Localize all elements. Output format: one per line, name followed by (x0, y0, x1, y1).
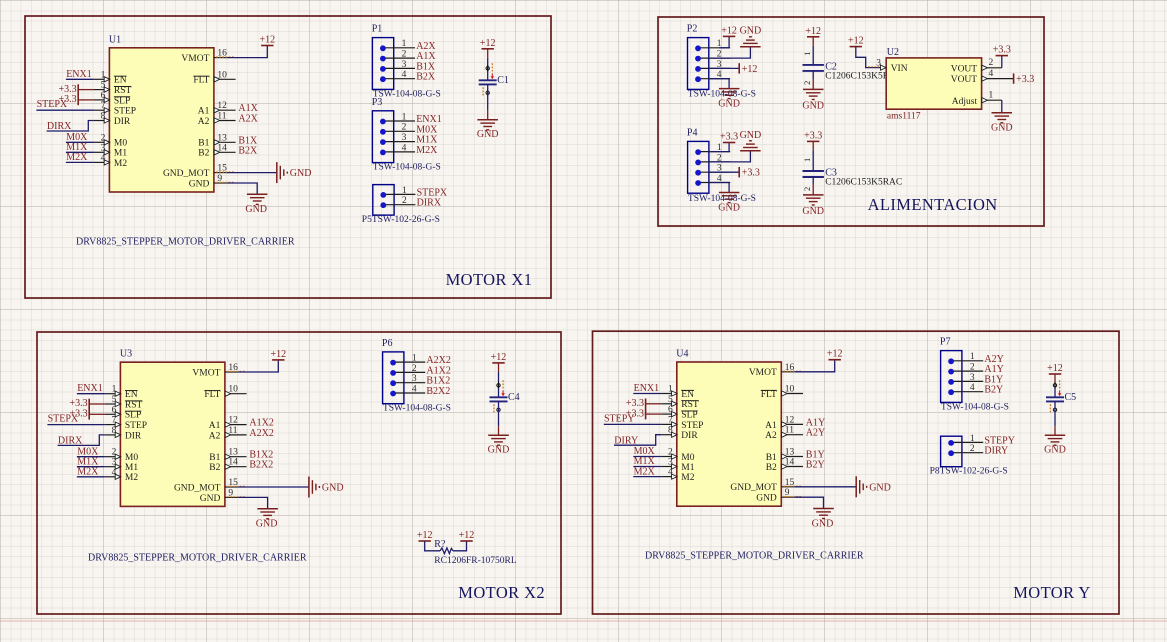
svg-text:2: 2 (402, 123, 407, 133)
svg-text:GND: GND (488, 444, 510, 455)
svg-text:TSW-104-08-G-S: TSW-104-08-G-S (383, 404, 451, 414)
net label M1X (416, 135, 438, 146)
pin 2 of P6 (390, 364, 425, 376)
value TSW-104-08-G-S of P4 (688, 194, 756, 204)
designator P1 (372, 24, 383, 35)
svg-text:STEPY: STEPY (604, 413, 635, 424)
wire +3.3 to C3 (812, 141, 814, 171)
svg-text:DRV8825_STEPPER_MOTOR_DRIVER_C: DRV8825_STEPPER_MOTOR_DRIVER_CARRIER (645, 551, 864, 562)
IC U2 ams1117 body (886, 58, 981, 109)
net label M0X (77, 446, 105, 457)
svg-text:R?: R? (434, 539, 446, 550)
ground GND_MOT port (277, 162, 312, 183)
svg-text:SLP: SLP (125, 411, 141, 421)
ground under pin 9 (256, 509, 278, 530)
svg-text:ENX1: ENX1 (66, 69, 92, 80)
value DRV8825_STEPPER_MOTOR_DRIVER_CARRIER of U1 (76, 237, 295, 248)
ground under pin 9 (245, 194, 267, 215)
svg-text:ENX1: ENX1 (77, 383, 103, 394)
pin 1 Adjust of U2 (952, 91, 1002, 107)
svg-text:M0: M0 (681, 453, 694, 463)
svg-text:11: 11 (228, 426, 237, 436)
svg-text:MOTOR Y: MOTOR Y (1013, 583, 1091, 602)
pin 8 DIR of U4 (661, 426, 698, 441)
designator C4 (508, 392, 520, 403)
designator U3 (120, 349, 132, 360)
svg-text:VIN: VIN (891, 64, 908, 74)
pin 3 VIN of U2 (868, 58, 908, 74)
connector P5 body (373, 185, 394, 216)
svg-text:GND: GND (740, 130, 762, 141)
svg-text:+12: +12 (459, 530, 475, 541)
connector P1 body (372, 38, 393, 90)
svg-text:TSW-104-08-G-S: TSW-104-08-G-S (941, 402, 1009, 412)
svg-text:3: 3 (112, 458, 117, 468)
net label A2Y (984, 354, 1003, 365)
pin 4 M2 of U4 (661, 468, 694, 483)
svg-text:1: 1 (970, 434, 975, 444)
svg-text:+12: +12 (721, 25, 737, 36)
power +12 at U2 VIN (848, 36, 864, 47)
wire +12 to C5 (1054, 374, 1056, 397)
svg-text:+12: +12 (827, 349, 843, 360)
pin 2 of P4 (695, 153, 730, 165)
net label M2X (77, 467, 105, 478)
wire +12 to C4 (498, 363, 500, 397)
svg-text:P1: P1 (372, 24, 383, 35)
svg-text:5: 5 (668, 395, 673, 405)
svg-text:GND: GND (802, 206, 824, 217)
pin 6 SLP of U3 (105, 405, 141, 420)
ground below C2 (802, 89, 824, 111)
svg-text:3: 3 (668, 458, 673, 468)
svg-text:3: 3 (402, 60, 407, 70)
ground below C4 (488, 435, 510, 455)
svg-text:U4: U4 (676, 349, 688, 360)
pin 4 of P4 (695, 174, 730, 186)
pin 16 VMOT of U1 (181, 49, 233, 64)
designator U1 (109, 34, 121, 45)
pin 9 GND of U1 (189, 174, 234, 189)
power +3.3 at U2.2 (993, 45, 1011, 56)
pin 8 DIR of U1 (94, 112, 131, 127)
net label A1X (416, 51, 436, 62)
ground (inverted) at P2.2 (740, 26, 762, 47)
pin 3 of P7 (948, 373, 983, 385)
svg-text:B2X: B2X (416, 72, 436, 83)
svg-text:+12: +12 (848, 36, 864, 47)
wire VMOT to +12 (227, 46, 267, 58)
title MOTOR X1 (446, 270, 533, 289)
net label DIRY (614, 435, 661, 447)
svg-text:GND: GND (802, 101, 824, 112)
svg-text:2: 2 (101, 133, 106, 143)
wire P4 pin4 to GND (709, 183, 729, 193)
svg-text:+12: +12 (742, 64, 758, 75)
svg-text:3: 3 (412, 374, 417, 384)
pin 5 RST of U4 (661, 395, 699, 410)
svg-text:B2: B2 (209, 463, 220, 473)
svg-text:P5TSW-102-26-G-S: P5TSW-102-26-G-S (362, 215, 440, 225)
net label B2X (416, 72, 436, 83)
pin 7 STEP of U3 (105, 416, 147, 431)
svg-text:MOTOR X2: MOTOR X2 (458, 583, 545, 602)
svg-text:A2: A2 (765, 431, 777, 441)
svg-text:DIR: DIR (125, 431, 142, 441)
net label DIRX (417, 198, 442, 209)
svg-text:4: 4 (402, 143, 407, 153)
pin 12 A1 of U3 (209, 416, 247, 431)
svg-text:8: 8 (112, 426, 117, 436)
value TSW-104-08-G-S of P6 (383, 404, 451, 414)
pin 2 of P5 (380, 196, 415, 208)
svg-text:GND: GND (189, 179, 210, 189)
power +12 at VMOT (270, 349, 286, 360)
svg-text:GND: GND (869, 482, 891, 493)
svg-text:DIRX: DIRX (47, 121, 72, 132)
svg-text:STEP: STEP (125, 421, 147, 431)
svg-text:+3.3: +3.3 (720, 132, 738, 143)
net label A1Y (806, 417, 825, 428)
svg-text:SLP: SLP (681, 411, 697, 421)
svg-text:4: 4 (402, 70, 407, 80)
svg-text:GND: GND (991, 123, 1013, 134)
pin 2 VOUT of U2 (951, 58, 1002, 74)
svg-text:C1206C153K5RAC: C1206C153K5RAC (825, 178, 902, 188)
net label M2X (66, 152, 94, 163)
wire GND pin 9 (227, 183, 257, 194)
pin 1 EN of U3 (105, 385, 138, 400)
designator P6 (382, 338, 393, 349)
svg-text:B2X: B2X (238, 145, 258, 156)
svg-text:12: 12 (228, 416, 238, 426)
wire +12 to R? (425, 541, 440, 551)
ground under pin 9 (812, 509, 834, 530)
svg-text:7: 7 (668, 415, 673, 425)
pin 3 of P1 (380, 60, 415, 72)
svg-text:C4: C4 (508, 392, 520, 403)
net label B2Y (806, 460, 825, 471)
net label B1X2 (426, 376, 450, 387)
svg-text:RC1206FR-10750RL: RC1206FR-10750RL (434, 556, 517, 566)
svg-text:MOTOR X1: MOTOR X1 (446, 270, 533, 289)
svg-text:M1: M1 (681, 463, 694, 473)
pin 2 mark of C4 (494, 404, 500, 413)
wire +12 to C2 (812, 37, 814, 65)
pin 4 VOUT of U2 (951, 69, 1014, 85)
title MOTOR X2 (458, 583, 545, 602)
net label B1X (238, 135, 258, 146)
pin 1 of P4 (695, 143, 730, 155)
svg-text:B1: B1 (209, 453, 220, 463)
ground at P2.4 (718, 89, 740, 110)
svg-text:B2Y: B2Y (806, 460, 825, 471)
net label ENX1 (66, 69, 94, 80)
designator P4 (687, 127, 698, 138)
net label STEPX (417, 187, 448, 198)
pin 1 of P6 (390, 354, 425, 366)
pin 2 of P1 (380, 50, 415, 62)
svg-text:DIRY: DIRY (614, 435, 638, 446)
svg-text:VOUT: VOUT (951, 64, 978, 74)
power +3.3 at U2.4 (1014, 73, 1035, 85)
pin 4 of P2 (695, 70, 730, 82)
svg-text:6: 6 (112, 405, 117, 415)
net label DIRX (47, 121, 94, 133)
power +3.3 above C3 (804, 130, 822, 141)
power +3.3 at P4.3 (739, 167, 760, 179)
svg-text:+12: +12 (1047, 363, 1063, 374)
pin 1 of P2 (695, 39, 730, 51)
pin 1 EN of U1 (94, 70, 127, 85)
capacitor C2 plates (803, 65, 824, 71)
pin 3 of P4 (695, 164, 730, 176)
svg-text:14: 14 (785, 458, 795, 468)
svg-text:1: 1 (668, 385, 673, 395)
svg-text:RST: RST (681, 400, 699, 410)
value TSW-104-08-G-S of P1 (373, 89, 441, 99)
svg-text:P2: P2 (687, 24, 698, 35)
pin 1 of C2 (802, 52, 812, 56)
svg-text:4: 4 (112, 468, 117, 478)
svg-text:1: 1 (101, 70, 106, 80)
designator C5 (1065, 392, 1077, 403)
svg-text:14: 14 (228, 458, 238, 468)
net label B2X (238, 145, 258, 156)
pin 13 B1 of U4 (766, 448, 803, 463)
svg-text:B1: B1 (198, 139, 209, 149)
wire C1 to ground (487, 84, 489, 119)
connector P7 body (941, 351, 962, 403)
svg-text:EN: EN (114, 76, 127, 86)
pin 2 mark of C5 (1050, 404, 1056, 413)
resistor R? (434, 539, 453, 554)
pin 3 M1 of U3 (105, 458, 138, 473)
pin 10 FLT of U1 (193, 70, 235, 85)
pin 2 M0 of U3 (105, 448, 138, 463)
svg-text:4: 4 (668, 468, 673, 478)
svg-text:VMOT: VMOT (749, 368, 777, 378)
wire GND_MOT (227, 172, 277, 174)
pin 1 mark of C5 (1053, 380, 1061, 396)
pin 3 M1 of U1 (94, 143, 127, 158)
pin 12 A1 of U4 (765, 415, 803, 430)
pin 1 of P7 (948, 352, 983, 364)
svg-text:B2: B2 (766, 463, 777, 473)
pin 14 B2 of U4 (766, 458, 803, 473)
power +12 above C5 (1047, 363, 1063, 374)
pin 12 A1 of U1 (198, 101, 236, 116)
svg-text:+3.3: +3.3 (804, 130, 822, 141)
value DRV8825_STEPPER_MOTOR_DRIVER_CARRIER of U3 (88, 553, 307, 564)
svg-text:1: 1 (989, 91, 994, 101)
svg-text:GND: GND (245, 204, 267, 215)
pin 3 M1 of U4 (661, 458, 694, 473)
wire +12 to VIN (856, 47, 886, 68)
pin 2 of P2 (695, 50, 730, 62)
svg-text:GND: GND (290, 168, 312, 179)
ground GND_MOT port (309, 477, 344, 498)
wire P4 pin3 to +3.3 bar (709, 171, 739, 173)
svg-text:4: 4 (970, 383, 975, 393)
title ALIMENTACION (868, 195, 998, 214)
svg-text:2: 2 (402, 196, 407, 206)
pin 4 of P7 (948, 383, 983, 395)
svg-text:EN: EN (125, 390, 138, 400)
svg-text:M1: M1 (114, 149, 127, 159)
pin 6 SLP of U1 (94, 91, 130, 106)
pin 13 B1 of U1 (198, 133, 235, 148)
power +3.3 bar at RST/SLP (69, 398, 104, 419)
svg-text:1: 1 (402, 186, 407, 196)
svg-text:RST: RST (114, 86, 132, 96)
svg-text:13: 13 (228, 448, 238, 458)
designator C1 (497, 75, 509, 86)
svg-text:A1: A1 (209, 421, 221, 431)
net label ENX1 (77, 383, 105, 394)
svg-text:GND: GND (812, 518, 834, 529)
svg-text:P7: P7 (940, 337, 951, 348)
svg-text:GND: GND (477, 129, 499, 140)
svg-text:+3.3: +3.3 (742, 168, 760, 179)
wire VOUT2 to +3.3 (1001, 56, 1003, 68)
svg-text:C5: C5 (1065, 392, 1077, 403)
svg-text:STEP: STEP (114, 107, 136, 117)
wire Adjust to GND (1001, 100, 1003, 113)
designator+value P8TSW-102-26-G-S (930, 467, 1008, 477)
svg-text:12: 12 (217, 101, 227, 111)
net label B1Y (984, 374, 1003, 385)
net label ENX1 (633, 383, 661, 394)
value TSW-104-08-G-S of P3 (373, 163, 441, 173)
sheet region MOTOR X1 border (25, 16, 551, 298)
svg-text:7: 7 (101, 101, 106, 111)
svg-text:Adjust: Adjust (952, 97, 978, 107)
svg-text:U3: U3 (120, 349, 132, 360)
net label A2X (416, 41, 436, 52)
wire P2 pin3 to +12 bar (709, 67, 739, 69)
pin 3 of P6 (390, 374, 425, 386)
svg-text:GND_MOT: GND_MOT (163, 169, 210, 179)
wire GND_MOT (794, 486, 856, 488)
svg-text:DIRY: DIRY (984, 446, 1008, 457)
net label A2X2 (249, 428, 273, 439)
pin 15 GND_MOT of U1 (163, 164, 234, 179)
svg-text:GND: GND (718, 203, 740, 214)
pin 11 A2 of U3 (209, 426, 247, 441)
svg-text:DIR: DIR (114, 117, 131, 127)
svg-text:TSW-104-08-G-S: TSW-104-08-G-S (373, 89, 441, 99)
ground at P4.4 (718, 193, 740, 214)
pin 4 of P1 (380, 70, 415, 82)
wire C5 to ground (1054, 401, 1056, 435)
net label DIRX (58, 435, 105, 447)
svg-text:11: 11 (785, 426, 794, 436)
pin 1 of P3 (380, 112, 415, 124)
svg-text:7: 7 (112, 416, 117, 426)
svg-text:GND_MOT: GND_MOT (174, 483, 221, 493)
svg-text:1: 1 (402, 39, 407, 49)
svg-text:DIR: DIR (681, 431, 698, 441)
power +12 left of R? (417, 530, 433, 541)
net label M0X (633, 446, 661, 457)
svg-text:GND_MOT: GND_MOT (730, 483, 777, 493)
pin 7 STEP of U1 (94, 101, 136, 116)
svg-text:6: 6 (668, 405, 673, 415)
svg-text:1: 1 (802, 158, 812, 162)
designator U2 (887, 47, 899, 58)
svg-text:4: 4 (989, 69, 994, 79)
svg-text:4: 4 (412, 384, 417, 394)
wire GND_MOT (238, 486, 309, 488)
sheet region MOTOR Y border (593, 331, 1120, 614)
svg-text:GND: GND (322, 483, 344, 494)
designator P2 (687, 24, 698, 35)
wire +12 to C1 (487, 49, 489, 81)
pin 6 SLP of U4 (661, 405, 697, 420)
pin 1 of P8 (948, 434, 983, 446)
net label A1Y (984, 364, 1003, 375)
net label M0X (66, 132, 94, 143)
pin 1 mark of C1 (486, 63, 494, 79)
svg-text:P8TSW-102-26-G-S: P8TSW-102-26-G-S (930, 467, 1008, 477)
power +12 at P2.1 (721, 25, 737, 36)
pin 16 VMOT of U3 (192, 363, 244, 378)
net label M1X (77, 456, 105, 467)
ground below C3 (802, 195, 824, 217)
svg-text:3: 3 (101, 143, 106, 153)
svg-text:14: 14 (217, 143, 227, 153)
designator U4 (676, 349, 688, 360)
power +3.3 bar at RST/SLP (58, 84, 93, 105)
value C1206C153K5RAC of C2 (825, 72, 902, 82)
pin 3 of P3 (380, 133, 415, 145)
svg-text:A2X: A2X (238, 114, 258, 125)
svg-text:TSW-104-08-G-S: TSW-104-08-G-S (373, 163, 441, 173)
wire P2 pin2 to GND (709, 47, 751, 58)
svg-text:M1: M1 (125, 463, 138, 473)
svg-text:GND: GND (256, 519, 278, 530)
sheet boundary line (0, 620, 1167, 622)
pin 3 of P2 (695, 60, 730, 72)
svg-text:1: 1 (402, 112, 407, 122)
svg-text:TSW-104-08-G-S: TSW-104-08-G-S (688, 194, 756, 204)
svg-text:GND: GND (718, 99, 740, 110)
svg-text:RST: RST (125, 400, 143, 410)
pin 16 VMOT of U4 (749, 363, 801, 378)
svg-text:12: 12 (785, 415, 795, 425)
svg-text:FLT: FLT (761, 390, 777, 400)
svg-text:+12: +12 (491, 352, 507, 363)
svg-text:GND: GND (1044, 444, 1066, 455)
svg-text:A2: A2 (209, 431, 221, 441)
designator+value P5TSW-102-26-G-S (362, 215, 440, 225)
pin 14 B2 of U1 (198, 143, 235, 158)
power +12 right of R? (459, 530, 475, 541)
net label STEPY (604, 413, 662, 424)
net label A2X2 (426, 355, 450, 366)
designator C2 (825, 62, 837, 73)
value DRV8825_STEPPER_MOTOR_DRIVER_CARRIER of U4 (645, 551, 864, 562)
net label A1X2 (426, 365, 450, 376)
wire P2 pin1 to +12 (719, 36, 729, 47)
svg-text:SLP: SLP (114, 96, 130, 106)
svg-text:TSW-104-08-G-S: TSW-104-08-G-S (688, 89, 756, 99)
wire GND pin 9 (238, 497, 268, 508)
svg-text:VOUT: VOUT (951, 75, 978, 85)
IC U1 DRV8825 body (109, 48, 213, 192)
svg-text:A2X2: A2X2 (249, 428, 273, 439)
